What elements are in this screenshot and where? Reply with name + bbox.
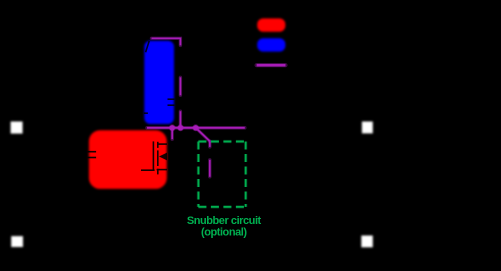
svg-text:Snubber circuit: Snubber circuit	[187, 215, 262, 227]
svg-text:(optional): (optional)	[201, 227, 247, 239]
